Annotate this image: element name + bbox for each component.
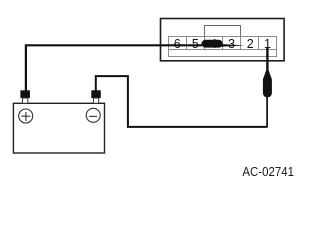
svg-text:5: 5 (192, 37, 199, 51)
svg-text:3: 3 (228, 37, 235, 51)
svg-text:2: 2 (247, 37, 254, 51)
svg-text:6: 6 (174, 37, 181, 51)
svg-text:AC-02741: AC-02741 (242, 165, 294, 179)
